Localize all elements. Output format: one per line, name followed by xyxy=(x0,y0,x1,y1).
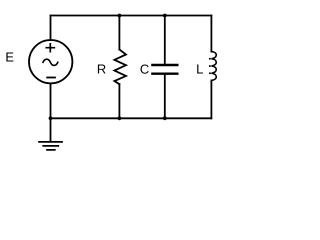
junction dot node bottom R xyxy=(118,116,122,120)
ground symbol xyxy=(39,142,62,150)
wire inductor branch top xyxy=(210,16,212,52)
capacitor C plates xyxy=(152,65,177,74)
resistor R zigzag xyxy=(114,50,126,85)
junction dot node top C xyxy=(163,14,167,18)
AC source plus sign xyxy=(46,44,54,52)
wire resistor branch bottom xyxy=(118,84,120,118)
label E xyxy=(6,53,13,62)
AC source minus sign xyxy=(47,77,55,79)
wire bottom rail xyxy=(51,117,212,119)
wire capacitor branch bottom xyxy=(164,75,166,118)
inductor coil knob 3 xyxy=(209,72,211,74)
wire resistor branch top xyxy=(118,16,120,50)
wire ground lead xyxy=(50,118,52,141)
wire source top lead xyxy=(50,16,52,41)
AC source sine wave xyxy=(43,59,58,65)
wire inductor branch bottom xyxy=(210,81,212,119)
AC source E circle U1 xyxy=(29,40,72,83)
junction dot node top R xyxy=(118,14,122,18)
inductor coil knob 1 xyxy=(209,58,211,60)
wire top rail xyxy=(51,15,212,17)
junction dot node bottom E xyxy=(49,116,53,120)
label L xyxy=(197,65,203,74)
inductor L coil xyxy=(211,52,216,81)
inductor coil knob 2 xyxy=(209,65,211,67)
wire capacitor branch top xyxy=(164,16,166,64)
label R xyxy=(98,65,106,74)
label C xyxy=(141,65,149,74)
junction dot node bottom C xyxy=(163,116,167,120)
wire source bottom lead xyxy=(50,83,52,118)
